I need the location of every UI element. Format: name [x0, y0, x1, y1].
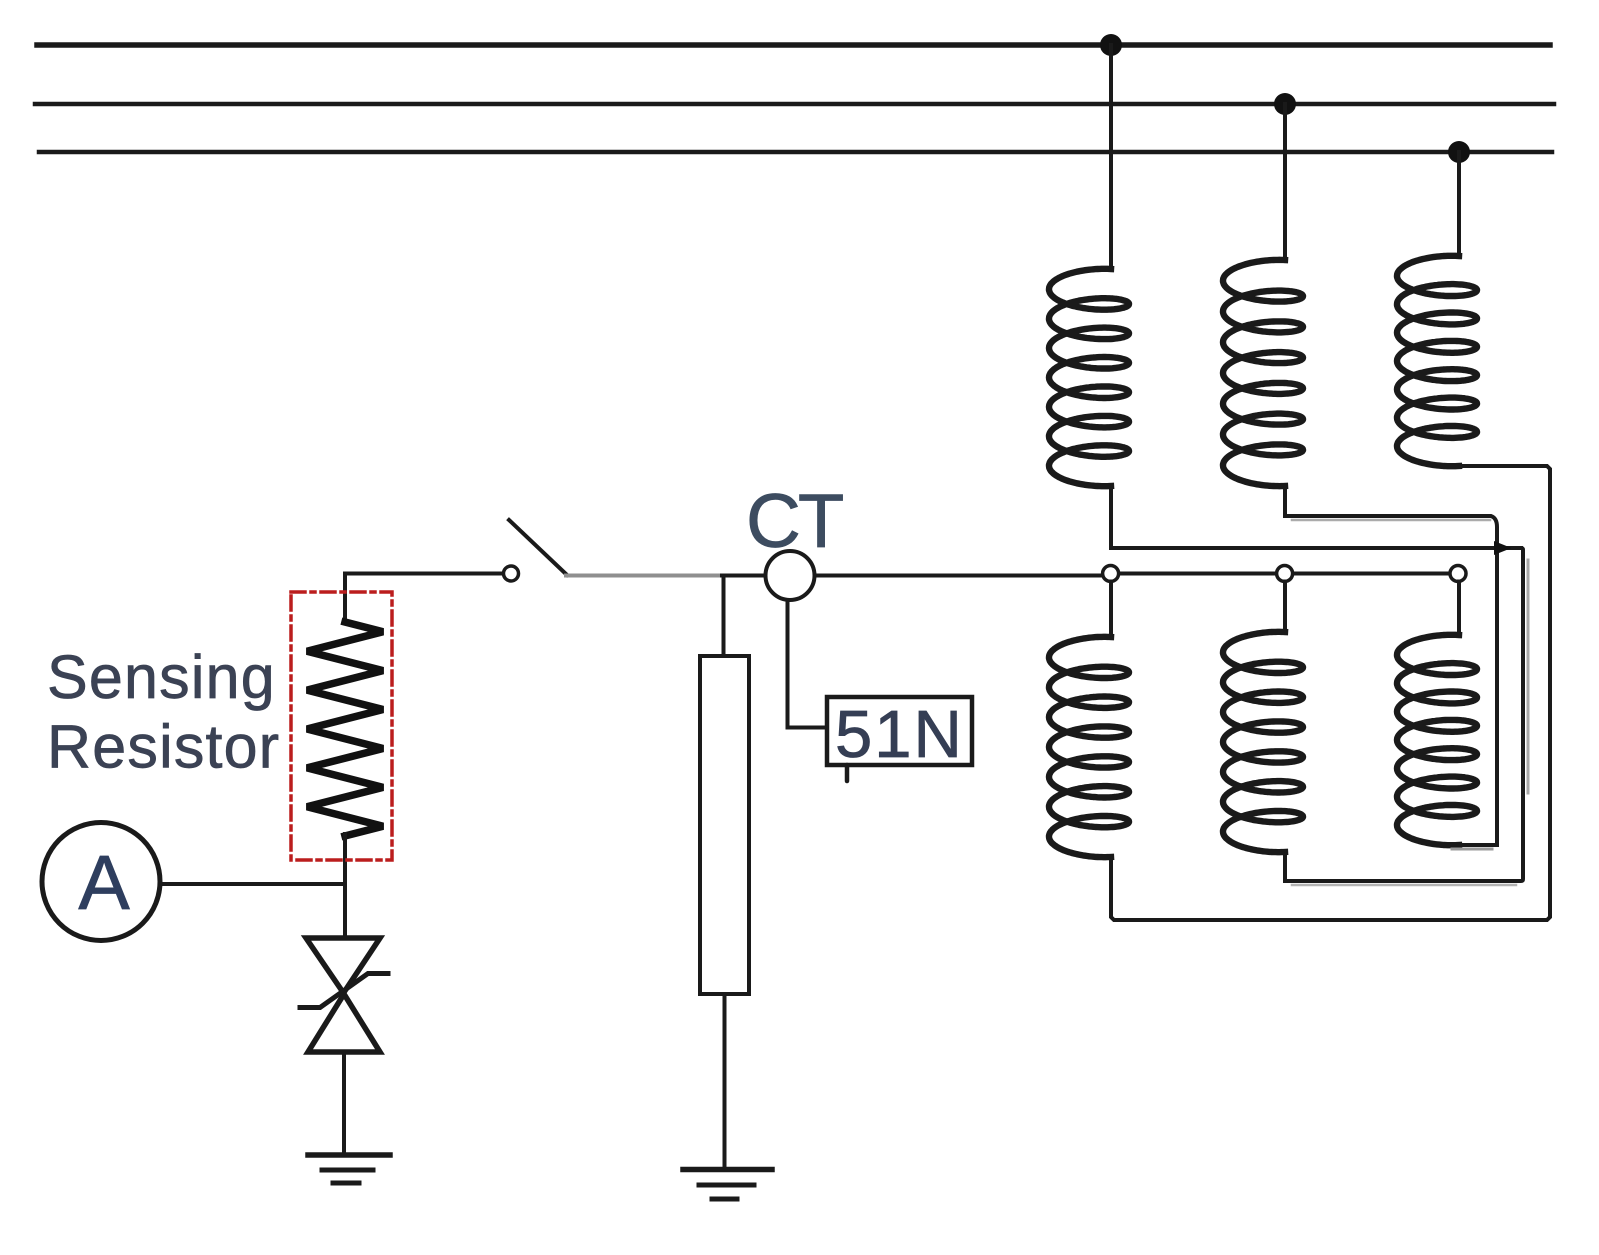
TVS triangle lower — [308, 994, 380, 1052]
switch blade — [509, 520, 567, 575]
gray shadow S3 exit — [1452, 848, 1492, 851]
primary winding P2 — [1223, 260, 1303, 486]
wire P2 bottom jog — [1285, 486, 1497, 845]
ground G1 line1 — [308, 1152, 390, 1158]
neutral node circle 2 — [1277, 566, 1293, 582]
ground G2 line3 — [712, 1197, 737, 1202]
wire junction to CT — [722, 574, 765, 578]
wire S3 bottom exit — [1459, 843, 1497, 847]
shadow below P2b line — [1292, 519, 1490, 522]
relay 51N box — [827, 697, 972, 765]
wire phase3 drop — [1457, 152, 1461, 256]
primary winding P1 — [1049, 269, 1129, 486]
ground G1 line2 — [322, 1168, 373, 1173]
neutral bus segment 2 — [1293, 572, 1451, 576]
wire P1 bottom to zigzag node — [1111, 486, 1521, 548]
shadow right of P1b vertical — [1527, 560, 1530, 793]
secondary winding S3 — [1397, 635, 1477, 845]
ground G2 line2 — [699, 1183, 754, 1188]
wire S3 top — [1457, 582, 1461, 636]
wire phase2 drop — [1283, 104, 1287, 260]
TVS triangle upper — [306, 938, 380, 993]
grounding resistor body — [700, 656, 749, 994]
junction dot phase1 — [1100, 34, 1122, 56]
wire CT to coil neutral bus — [815, 574, 1103, 578]
svg-text:Resistor: Resistor — [47, 713, 280, 781]
primary winding P3 — [1397, 256, 1477, 466]
wire zigzag to TVS — [343, 834, 347, 938]
junction dot phase2 — [1274, 93, 1296, 115]
wire P1b corner down to S2 bottom — [1285, 548, 1523, 881]
neutral node circle 1 — [1103, 566, 1119, 582]
bus line L2 — [35, 102, 1554, 107]
wire gray segment blade to junction — [566, 574, 722, 578]
svg-text:Sensing: Sensing — [47, 643, 276, 711]
neutral node circle 3 — [1450, 566, 1466, 582]
shadow below S2 line — [1292, 884, 1516, 887]
wire phase1 drop — [1109, 45, 1113, 269]
wire S2 top — [1283, 582, 1287, 633]
sensing resistor red outline — [291, 592, 392, 860]
secondary winding S1 — [1049, 637, 1129, 857]
wire CT secondary drop — [788, 600, 828, 728]
bus line L1 — [37, 42, 1550, 48]
ammeter circle — [42, 823, 160, 941]
wire ammeter link — [161, 882, 343, 886]
arrowhead on neutral link — [1494, 541, 1512, 555]
svg-text:A: A — [78, 840, 130, 926]
wire S2 bottom exit — [1283, 852, 1287, 881]
wire P3 bottom to S1 bottom — [1111, 466, 1550, 920]
neutral bus segment 1 — [1119, 572, 1277, 576]
wire neutral from sensing resistor to switch — [345, 572, 503, 576]
wire TVS to ground — [342, 1052, 346, 1155]
ground G1 line3 — [333, 1181, 359, 1186]
sensing resistor zigzag — [307, 622, 383, 836]
TVS slash — [300, 974, 388, 1008]
wire resistor to ground — [723, 994, 727, 1169]
wire resistor branch down — [722, 576, 726, 657]
wire S1 top — [1109, 582, 1113, 638]
svg-text:51N: 51N — [835, 697, 964, 772]
switch contact circle — [504, 566, 519, 581]
svg-text:CT: CT — [746, 479, 843, 564]
ground G2 line1 — [683, 1167, 772, 1173]
junction dot phase3 — [1448, 141, 1470, 163]
wire sensing resistor top — [343, 574, 347, 623]
bus line L3 — [39, 150, 1552, 155]
51N pigtail — [845, 765, 850, 781]
CT circle — [766, 551, 815, 600]
secondary winding S2 — [1223, 632, 1303, 852]
